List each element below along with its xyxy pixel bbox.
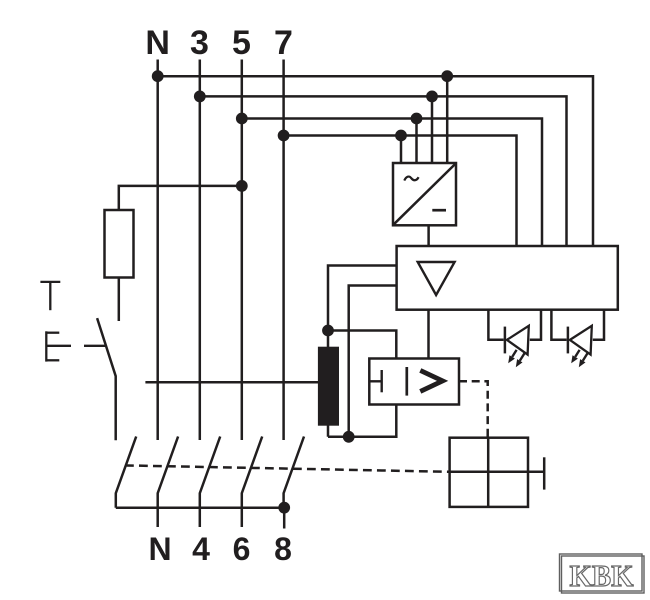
svg-text:4: 4 [192,531,210,567]
svg-text:KBK: KBK [570,558,634,593]
svg-text:7: 7 [274,24,293,62]
svg-text:6: 6 [233,531,251,567]
svg-text:5: 5 [232,24,251,62]
svg-text:N: N [145,24,170,62]
svg-text:8: 8 [274,531,292,567]
svg-text:N: N [148,531,171,567]
svg-text:3: 3 [190,24,209,62]
